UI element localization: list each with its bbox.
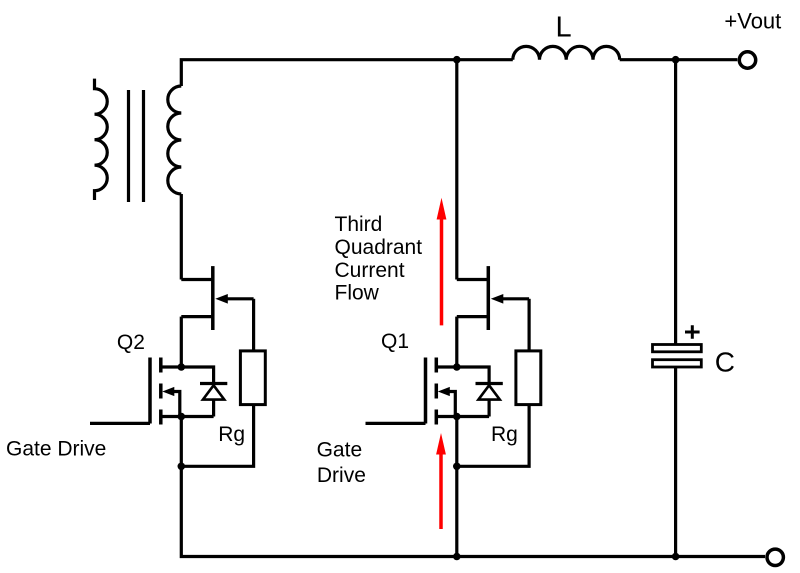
wire Q2 drain to diode D2 bbox=[181, 367, 213, 384]
MOSFET Q2 channel segments bbox=[159, 358, 163, 425]
MOSFET Q1 channel segments bbox=[435, 358, 439, 425]
transformer T1 secondary winding bbox=[168, 86, 182, 194]
svg-text:L: L bbox=[556, 12, 572, 44]
node: Q2 Rg bottom bbox=[178, 463, 186, 471]
node: junction dot C / bottom rail bbox=[672, 553, 680, 561]
resistor Rg (Q1) bottom lead bbox=[457, 405, 529, 467]
svg-text:+Vout: +Vout bbox=[724, 9, 781, 34]
wire top rail right bbox=[620, 58, 738, 61]
MOSFET Q2 drain lead bbox=[161, 365, 182, 368]
wire arrow corner to Rg top (Q1) bbox=[527, 299, 530, 351]
diode D1 cathode bar bbox=[476, 382, 503, 385]
transistor Q1 upper symbol: bottom stub bbox=[457, 315, 489, 318]
svg-text:Rg: Rg bbox=[491, 423, 518, 446]
transistor Q2 upper symbol: top stub bbox=[181, 278, 213, 281]
node: junction dot Q1 / top rail bbox=[453, 56, 461, 64]
diode D2 triangle bbox=[203, 385, 224, 399]
svg-text:Q2: Q2 bbox=[117, 331, 145, 354]
transformer T1 primary winding bbox=[95, 79, 108, 200]
MOSFET Q2 source lead bbox=[161, 415, 182, 418]
wire Q1 source down bbox=[455, 417, 458, 557]
svg-text:Flow: Flow bbox=[335, 281, 380, 304]
MOSFET Q1 gate line bbox=[424, 358, 428, 424]
svg-text:Third: Third bbox=[335, 213, 383, 236]
node: Q1 source bbox=[453, 413, 461, 421]
MOSFET Q1 body arrow tail bbox=[449, 392, 455, 417]
diode D2 anode wire bbox=[181, 400, 213, 417]
MOSFET Q1 body arrowhead bbox=[438, 387, 450, 396]
transistor Q2 upper symbol: arrow tail wire bbox=[227, 297, 254, 300]
svg-text:C: C bbox=[715, 346, 735, 377]
svg-text:Gate: Gate bbox=[317, 439, 363, 462]
red current arrow upper shaft bbox=[440, 216, 444, 325]
wire Q1 drain to diode D1 bbox=[457, 367, 489, 384]
terminal bottom output bbox=[767, 549, 783, 565]
wire Q2 source down + bottom rail bbox=[181, 417, 765, 557]
transistor Q2 upper symbol: bar bbox=[211, 266, 215, 330]
transformer T1 core bbox=[129, 90, 144, 202]
diode D1 triangle bbox=[478, 385, 499, 399]
MOSFET Q2 body arrowhead bbox=[162, 387, 174, 396]
resistor Rg (Q2) bottom lead bbox=[181, 405, 253, 467]
wire Q2 upper to drain bbox=[180, 317, 183, 367]
wire arrow corner to Rg top (Q2) bbox=[252, 299, 255, 351]
svg-text:Rg: Rg bbox=[218, 423, 245, 446]
svg-text:Gate Drive: Gate Drive bbox=[6, 438, 106, 461]
resistor Rg (Q1) body bbox=[516, 351, 541, 405]
wire Q1 top rail to upper symbol bbox=[455, 60, 458, 280]
wire gate drive Q2 bbox=[90, 422, 150, 425]
inductor L bbox=[513, 46, 620, 59]
wire capacitor C bottom bbox=[674, 367, 677, 557]
node: Q1 drain bbox=[453, 363, 461, 371]
red current arrow lower shaft bbox=[439, 451, 443, 529]
diode D2 cathode bar bbox=[200, 382, 227, 385]
svg-text:Current: Current bbox=[335, 259, 405, 282]
transistor Q2 upper symbol: bottom stub bbox=[181, 315, 213, 318]
capacitor C top plate bbox=[653, 345, 702, 352]
wire top rail left + transformer secondary drop bbox=[181, 60, 513, 86]
MOSFET Q1 drain lead bbox=[436, 365, 457, 368]
capacitor C bottom plate bbox=[653, 360, 702, 367]
wire secondary to Q2 upper bbox=[180, 194, 183, 280]
MOSFET Q1 source lead bbox=[436, 415, 457, 418]
capacitor C polarity plus bbox=[685, 325, 700, 339]
resistor Rg (Q2) body bbox=[240, 351, 265, 405]
transistor Q1 upper symbol: bar bbox=[487, 266, 491, 330]
transistor Q1 upper symbol: arrowhead bbox=[491, 294, 504, 304]
wire Q1 upper to drain bbox=[455, 317, 458, 367]
node: Q2 source bbox=[178, 413, 186, 421]
node: junction dot Q1 / bottom rail bbox=[453, 553, 461, 561]
node: Q2 drain bbox=[178, 363, 186, 371]
transistor Q1 upper symbol: top stub bbox=[457, 278, 489, 281]
transistor Q2 upper symbol: arrowhead bbox=[215, 294, 228, 304]
wire capacitor C top bbox=[674, 60, 677, 345]
diode D1 anode wire bbox=[457, 400, 489, 417]
wire gate drive Q1 bbox=[366, 422, 426, 425]
terminal +Vout bbox=[739, 52, 755, 68]
node: junction dot C / top rail bbox=[672, 56, 680, 64]
svg-text:Drive: Drive bbox=[317, 464, 366, 487]
svg-text:Q1: Q1 bbox=[381, 330, 409, 353]
MOSFET Q2 gate line bbox=[148, 358, 152, 424]
red current arrow lower head bbox=[436, 433, 446, 455]
node: Q1 Rg bottom bbox=[453, 463, 461, 471]
svg-text:Quadrant: Quadrant bbox=[335, 236, 423, 259]
transistor Q1 upper symbol: arrow tail wire bbox=[502, 297, 529, 300]
red current arrow upper head bbox=[437, 198, 447, 220]
MOSFET Q2 body arrow tail bbox=[174, 392, 180, 417]
